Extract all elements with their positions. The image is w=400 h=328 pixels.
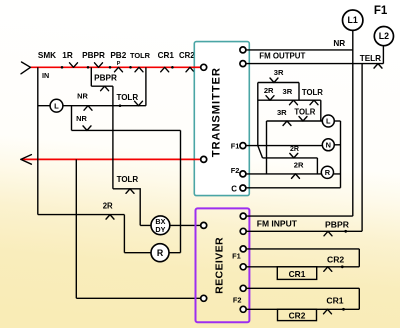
svg-text:TOLR: TOLR	[302, 88, 323, 97]
contact 3R top (front)	[270, 78, 278, 83]
contact PBPR (front)	[95, 63, 103, 68]
terminal RX F2b	[240, 306, 246, 312]
contact 2R left (back)	[106, 215, 114, 220]
wire right drop x180	[180, 130, 182, 252]
label 2R mid	[290, 146, 299, 153]
wire N1 stub into TX	[193, 158, 201, 160]
lamp L right	[322, 115, 334, 127]
label TELR	[360, 54, 381, 63]
relay R left	[151, 244, 169, 262]
svg-text:1R: 1R	[62, 51, 73, 60]
wire NR lower row y130	[72, 129, 181, 131]
label TOLR	[130, 51, 151, 60]
svg-text:PBPR: PBPR	[94, 74, 117, 83]
wire N stub	[334, 144, 340, 146]
junction dots on top rail	[61, 66, 174, 69]
wire TELR rail x362	[361, 64, 363, 232]
wire diagonal	[258, 146, 263, 158]
svg-text:CR1: CR1	[326, 295, 343, 305]
label SMK	[38, 51, 56, 60]
svg-text:RECEIVER: RECEIVER	[214, 237, 226, 294]
contact CR1 (back)	[161, 67, 169, 72]
terminal TX C	[240, 185, 246, 191]
svg-text:PBPR: PBPR	[82, 51, 105, 60]
wire left drop x266.5	[266, 121, 268, 174]
label 2R left	[103, 202, 113, 211]
svg-text:CR1: CR1	[158, 51, 175, 60]
svg-text:3R: 3R	[274, 68, 284, 77]
wire NR box left edge	[71, 106, 73, 131]
contact TOLR (back)	[135, 67, 143, 72]
label TX F1	[231, 141, 240, 150]
terminal TX F2	[240, 171, 246, 177]
wire riser x146	[145, 67, 147, 105]
wire riser x317.4	[316, 158, 318, 174]
svg-text:N: N	[326, 141, 331, 150]
wire box1 right edge	[298, 83, 300, 101]
wire NR rail x352.8	[352, 30, 354, 216]
svg-text:TRANSMITTER: TRANSMITTER	[210, 67, 222, 157]
contact TOLR row2 (back)	[310, 100, 318, 105]
label TOLR row2	[302, 88, 323, 97]
label IN	[42, 71, 49, 80]
svg-text:L2: L2	[379, 31, 389, 41]
wire row2 y100.2	[258, 99, 321, 101]
svg-text:TOLR: TOLR	[130, 51, 151, 60]
wire 2R row y215	[38, 214, 125, 216]
contact 1R (front)	[70, 63, 78, 68]
svg-text:3R: 3R	[277, 108, 287, 117]
wire riser x320.8	[320, 100, 322, 121]
terminal RX F1b	[240, 264, 246, 270]
svg-text:F1: F1	[231, 141, 240, 150]
svg-text:2R: 2R	[103, 202, 113, 211]
junction dot lamp row	[119, 104, 122, 107]
svg-text:DY: DY	[155, 225, 165, 234]
wire B1 top feed rail (red)	[30, 66, 202, 68]
wire drop x124	[123, 215, 125, 253]
label TX C	[231, 184, 237, 193]
label CR2 contact	[327, 255, 344, 265]
svg-text:2R: 2R	[294, 160, 304, 169]
svg-text:F1: F1	[374, 5, 388, 17]
wire FM out1 y50	[246, 49, 353, 51]
svg-text:2R: 2R	[290, 146, 299, 153]
wire return drop x76	[75, 159, 77, 298]
svg-text:TOLR: TOLR	[294, 108, 315, 117]
label CR2	[179, 51, 195, 60]
wire FM in2 y231.3	[246, 230, 362, 232]
label NR upper	[77, 91, 88, 100]
svg-text:NR: NR	[333, 39, 345, 48]
lamp N right	[322, 139, 334, 151]
svg-text:PB2: PB2	[110, 51, 126, 60]
svg-text:2R: 2R	[264, 86, 274, 95]
label 3R row3	[277, 108, 287, 117]
contact TOLR row3 (front)	[299, 117, 307, 122]
svg-text:TELR: TELR	[360, 54, 381, 63]
svg-text:FM INPUT: FM INPUT	[257, 219, 298, 229]
label NR right	[333, 39, 345, 48]
svg-text:F2: F2	[233, 296, 242, 305]
label PB2	[110, 51, 126, 60]
svg-text:P: P	[117, 61, 121, 67]
lamp L	[50, 99, 63, 112]
wire F2 loop top y288.3	[246, 287, 359, 289]
TRANSMITTER box	[194, 42, 249, 196]
wire bottom row y299	[76, 297, 201, 299]
wire vertical x113	[112, 86, 114, 189]
label PBPR	[82, 51, 105, 60]
svg-text:TOLR: TOLR	[116, 93, 138, 102]
label TOLR lower	[117, 175, 139, 184]
wire F1 loop top y249	[246, 248, 359, 250]
svg-text:CR2: CR2	[179, 51, 195, 60]
svg-text:NR: NR	[76, 114, 87, 123]
wire FM out2 y63.6	[246, 63, 384, 65]
contact 3R row3 (back)	[283, 121, 291, 126]
contact 2R row2 (front)	[266, 96, 274, 101]
junction dot F2 loop	[342, 308, 345, 311]
label PBPR right	[325, 220, 350, 230]
wire left riser x257.8	[257, 83, 259, 146]
wire PBPR branch drop	[90, 67, 92, 86]
terminal RX in1	[240, 213, 246, 219]
relay coil CR1	[277, 267, 316, 280]
label RX F1	[232, 252, 241, 261]
contact NR upper (back)	[84, 106, 92, 111]
junction dot FM in2	[344, 230, 347, 233]
svg-text:FM OUTPUT: FM OUTPUT	[259, 51, 305, 60]
wire R row y253	[124, 252, 180, 254]
svg-text:3R: 3R	[283, 87, 293, 96]
svg-text:F1: F1	[232, 252, 241, 261]
label 3R top	[274, 68, 284, 77]
svg-text:CR1: CR1	[289, 269, 306, 279]
wire N1 return rail (red)	[22, 158, 202, 160]
wire collector x340.5	[340, 121, 342, 188]
contact 2R mid (front)	[290, 153, 298, 158]
svg-text:SMK: SMK	[38, 51, 56, 60]
terminal TX N	[201, 156, 207, 162]
contact NR lower (front)	[83, 126, 91, 130]
contact 2R box (back)	[292, 174, 300, 179]
wire B1 stub into TX	[193, 66, 201, 68]
label 3R row2	[283, 87, 293, 96]
label PBPR branch	[94, 74, 117, 83]
wire PBPR branch horizontal	[91, 85, 113, 87]
svg-text:TOLR: TOLR	[117, 175, 139, 184]
terminal RX F2a	[240, 285, 246, 291]
svg-text:PBPR: PBPR	[325, 220, 350, 230]
relay BX/DY	[151, 216, 170, 235]
wire F1 row y145.6	[246, 145, 322, 147]
contact PB2/P (back)	[115, 67, 123, 72]
label RX F2	[233, 296, 242, 305]
wire C row y187.8	[246, 187, 341, 189]
arrow feed-in	[21, 62, 31, 74]
svg-text:L1: L1	[348, 15, 358, 25]
wire L2 drop	[382, 46, 384, 64]
arrow feed-out	[21, 155, 32, 165]
terminal RX in2	[240, 228, 246, 234]
relay R right	[321, 166, 333, 178]
terminal TX out2	[240, 61, 246, 67]
junction dot F1 loop	[341, 265, 344, 268]
RECEIVER box	[196, 208, 250, 322]
terminal TX F1	[240, 143, 246, 149]
svg-text:L: L	[54, 102, 59, 111]
lamp L1	[343, 10, 363, 30]
contact CR2 (back)	[186, 67, 194, 72]
relay coil CR2	[278, 309, 317, 320]
svg-text:R: R	[325, 168, 331, 177]
label FM INPUT	[257, 219, 298, 229]
contact TELR (back)	[374, 64, 382, 69]
svg-text:C: C	[231, 184, 237, 193]
label NR lower	[76, 114, 87, 123]
contact TOLR mid (front)	[135, 101, 143, 106]
contact PBPR right (back)	[324, 231, 332, 236]
terminal RX left1	[201, 222, 207, 228]
svg-text:IN: IN	[42, 71, 49, 80]
wire F2 row y173.9	[246, 173, 341, 175]
wire F2 loop right	[358, 288, 360, 309]
label 1R	[62, 51, 73, 60]
wire lamp row y106	[38, 105, 146, 107]
wire IN rail down	[37, 67, 39, 214]
label CR1	[158, 51, 175, 60]
label FM OUTPUT	[259, 51, 305, 60]
wire TOLR lower row	[113, 189, 140, 226]
svg-text:NR: NR	[77, 91, 88, 100]
wire row3 y121	[267, 120, 323, 122]
contact CR1 (back)	[324, 309, 332, 314]
svg-text:R: R	[157, 248, 164, 258]
label TOLR mid	[116, 93, 138, 102]
label F1 title	[374, 5, 388, 17]
wire box1 top y82.5	[258, 82, 299, 84]
label TOLR row3	[294, 108, 315, 117]
wire F1 loop bottom y266.8	[246, 266, 359, 268]
svg-text:F2: F2	[231, 166, 240, 175]
wire FM in1 y216	[246, 215, 353, 217]
svg-text:CR2: CR2	[327, 255, 344, 265]
label TX F2	[231, 166, 240, 175]
label 2R row2	[264, 86, 274, 95]
terminal TX B	[201, 64, 207, 70]
wire F1 loop right	[358, 249, 360, 267]
contact PBPR branch (back)	[101, 86, 109, 91]
contact TOLR lower (back)	[126, 189, 134, 194]
label 2R box	[294, 160, 304, 169]
lamp L2	[374, 26, 393, 45]
contact 3R row2 (back)	[290, 100, 298, 105]
svg-text:CR2: CR2	[289, 310, 306, 320]
wire SXDY row	[140, 224, 201, 226]
label CR1 contact	[326, 295, 343, 305]
terminal RX left2	[201, 295, 207, 301]
terminal RX F1a	[240, 246, 246, 252]
svg-text:L: L	[326, 117, 331, 126]
contact CR2 (back)	[324, 267, 332, 272]
label P	[117, 61, 121, 67]
wire row y157.9	[263, 157, 318, 159]
terminal TX out1	[240, 47, 246, 53]
wire L stub	[334, 120, 340, 122]
wire F2 loop bottom y309.3	[246, 308, 359, 310]
